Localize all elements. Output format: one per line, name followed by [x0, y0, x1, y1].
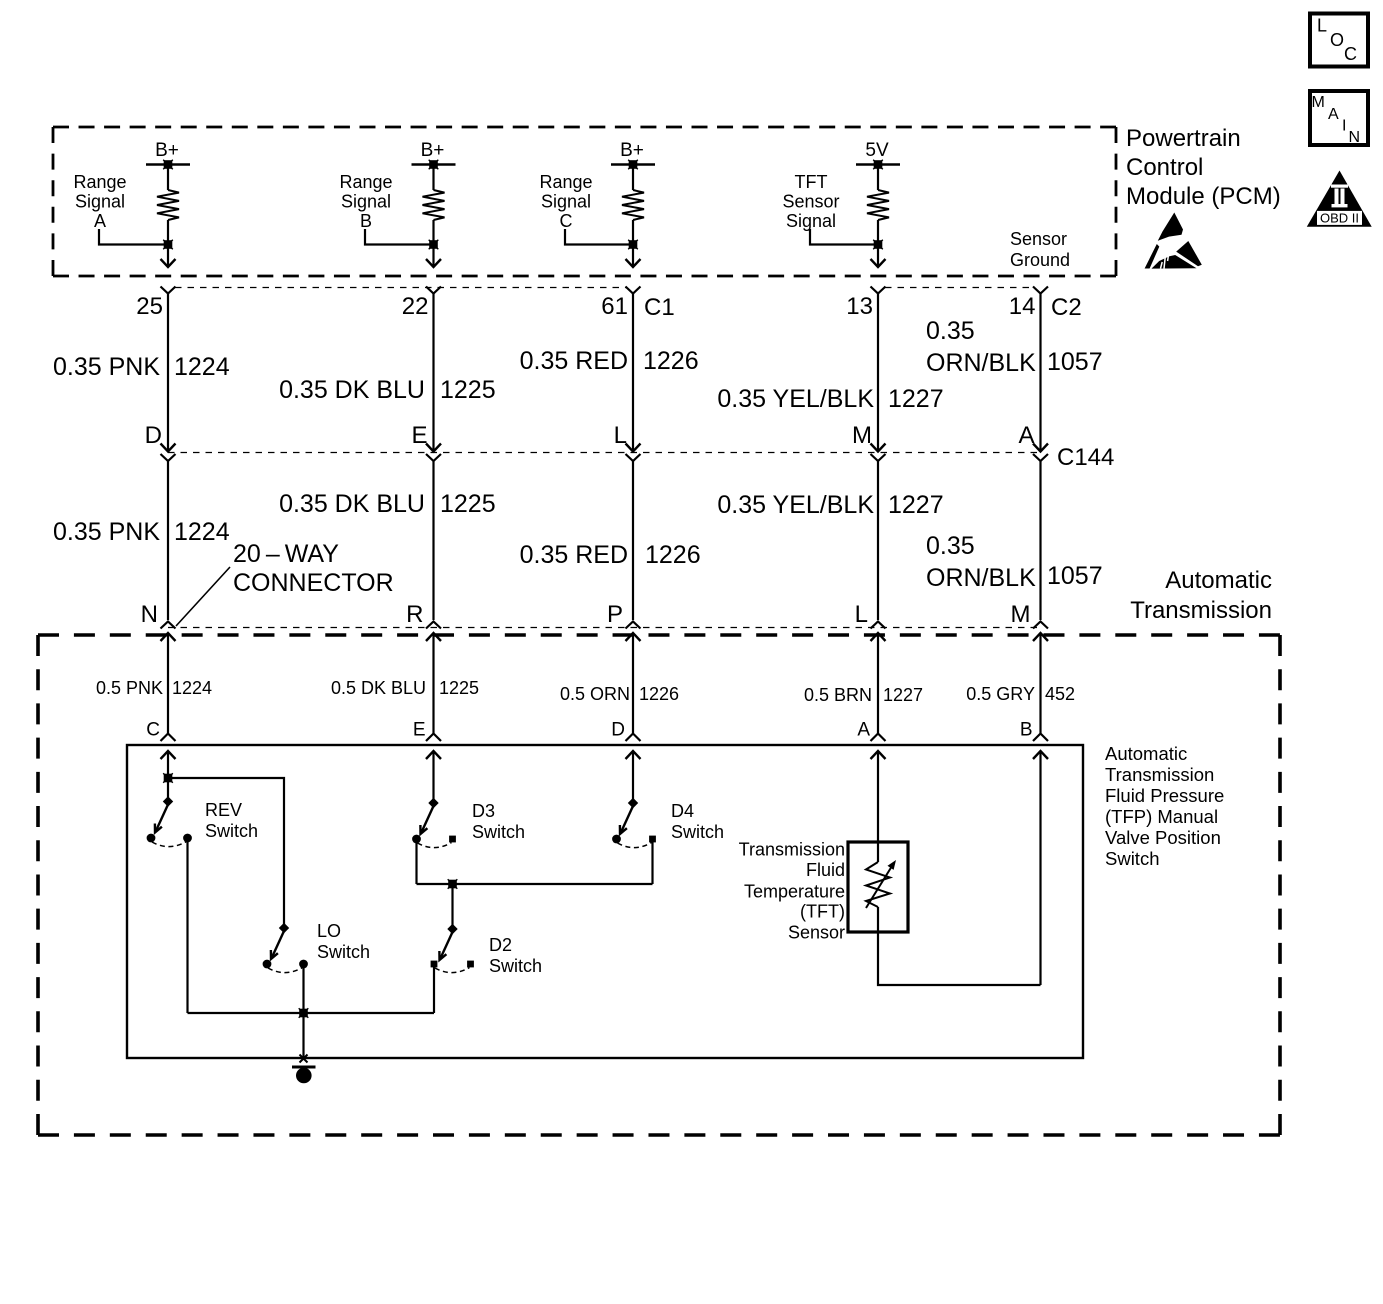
svg-text:452: 452 [1045, 684, 1075, 704]
D3 switch travel arc [418, 843, 452, 848]
splice junction D2 feed [448, 879, 458, 889]
20-way pin letter M [1011, 601, 1031, 628]
svg-text:C: C [1344, 44, 1357, 64]
splice junction signal node C [628, 240, 638, 250]
svg-text:Switch: Switch [671, 822, 724, 842]
wire label 0.5 PNK 1224 [96, 678, 212, 698]
svg-text:C: C [560, 211, 573, 231]
connector C1 dashed interface line [175, 287, 626, 289]
svg-text:ORN/BLK: ORN/BLK [926, 564, 1036, 592]
svg-text:E: E [411, 422, 427, 449]
pin number 61 [601, 293, 628, 320]
svg-text:Signal: Signal [341, 192, 391, 212]
TFP switch female terminal B [1033, 734, 1048, 742]
svg-text:O: O [1330, 30, 1344, 50]
D4 switch travel arc [618, 843, 652, 848]
svg-text:D: D [145, 422, 162, 449]
D4 switch blade [620, 806, 633, 834]
svg-text:0.35 YEL/BLK: 0.35 YEL/BLK [717, 385, 874, 413]
wire inside TFP switch (terminal E) [426, 751, 441, 805]
svg-text:B: B [1020, 720, 1033, 741]
svg-text:Module (PCM): Module (PCM) [1126, 183, 1281, 210]
svg-text:1225: 1225 [439, 678, 479, 698]
svg-text:1224: 1224 [172, 678, 212, 698]
svg-text:1225: 1225 [440, 490, 496, 518]
connector C1/C2 female terminal pin 25 [161, 287, 176, 294]
wire REV splice to LO switch [168, 778, 284, 925]
svg-text:Fluid Pressure: Fluid Pressure [1105, 785, 1224, 806]
node 5V supply rail (circuit 4) [856, 140, 900, 165]
wire ground bus [188, 1012, 435, 1014]
connector C144 female terminal E [426, 454, 441, 461]
svg-text:0.35 RED: 0.35 RED [520, 347, 628, 375]
20-way pin letter N [141, 601, 158, 628]
svg-text:B+: B+ [155, 140, 179, 161]
20-way connector female terminal N [161, 622, 176, 629]
crossing mark at TFP box edge [300, 1055, 308, 1063]
svg-text:0.5 BRN: 0.5 BRN [804, 685, 872, 705]
wire inside TFP switch (terminal B) [1033, 751, 1048, 985]
Automatic Transmission label [1130, 567, 1272, 624]
svg-text:0.5 ORN: 0.5 ORN [560, 684, 630, 704]
svg-text:0.5 PNK: 0.5 PNK [96, 678, 163, 698]
REV switch label [205, 800, 258, 841]
20-WAY CONNECTOR callout label [233, 540, 394, 597]
wire with arrow to PCM connector pin [626, 245, 641, 268]
C144 pin letter E [411, 422, 427, 449]
D3 switch label [472, 801, 525, 842]
svg-text:Transmission: Transmission [1130, 597, 1272, 624]
svg-text:D2: D2 [489, 935, 512, 955]
wire bus D3/D4 to D2 [417, 883, 653, 885]
REV switch travel arc [152, 842, 187, 847]
D3 switch blade [420, 806, 433, 834]
svg-text:1057: 1057 [1047, 348, 1103, 376]
svg-text:Automatic: Automatic [1165, 567, 1272, 594]
connector C144 female terminal A [1033, 454, 1048, 461]
svg-text:0.35 DK BLU: 0.35 DK BLU [279, 490, 425, 518]
svg-text:C1: C1 [644, 294, 675, 321]
wire LO output down to ground bus [302, 967, 304, 1013]
D2 switch travel arc [435, 968, 470, 973]
wire signal tap L-bend [565, 229, 633, 245]
connector name C2 [1051, 294, 1082, 321]
C144 pin letter D [145, 422, 162, 449]
svg-text:L: L [855, 601, 868, 628]
wire label 0.35 PNK 1224 (lower) [53, 518, 230, 546]
svg-text:Switch: Switch [1105, 848, 1160, 869]
svg-text:TFT: TFT [795, 172, 828, 192]
splice junction signal node B [429, 240, 439, 250]
svg-text:P: P [607, 601, 623, 628]
svg-text:C: C [146, 720, 160, 741]
signal label Range Signal C [539, 172, 592, 231]
20-way pin letter R [406, 601, 423, 628]
svg-text:0.5 DK BLU: 0.5 DK BLU [331, 678, 426, 698]
connector C144 dashed interface line [168, 452, 1040, 454]
20-way pin letter P [607, 601, 623, 628]
wire segment PCM to C144 (column 4) [871, 294, 886, 452]
svg-text:C2: C2 [1051, 294, 1082, 321]
node B+ supply rail (circuit 3) [611, 140, 655, 165]
wire label 0.35 RED 1226 (upper) [520, 347, 699, 375]
svg-text:Range: Range [73, 172, 126, 192]
D2 switch pivot [447, 924, 457, 934]
TFP switch name label [1105, 743, 1224, 869]
thermistor TFT element [866, 842, 896, 932]
svg-text:Sensor: Sensor [1010, 229, 1067, 249]
D2 switch label [489, 935, 542, 976]
connector C1/C2 female terminal pin 61 [626, 287, 641, 294]
wire label 0.35 RED 1226 (lower) [520, 541, 701, 569]
wire segment PCM to C144 (column 3) [626, 294, 641, 452]
svg-text:0.35 PNK: 0.35 PNK [53, 518, 160, 546]
svg-text:1057: 1057 [1047, 562, 1103, 590]
svg-text:Signal: Signal [786, 211, 836, 231]
wire inside TFP switch (terminal C) [161, 751, 176, 801]
REV switch contacts [147, 834, 192, 843]
wire TFT sensor return loop [878, 932, 1041, 985]
wire label 0.5 DK BLU 1225 [331, 678, 479, 698]
connector C144 female terminal D [161, 454, 176, 461]
pin number 22 [402, 293, 429, 320]
wire segment PCM to C144 (column 1) [161, 294, 176, 452]
svg-text:A: A [1328, 106, 1339, 123]
svg-text:Ground: Ground [1010, 250, 1070, 270]
svg-text:N: N [1349, 129, 1361, 146]
wire resistor to signal node [877, 220, 879, 245]
splice junction REV feed [163, 773, 173, 783]
D4 switch pivot [628, 798, 638, 808]
svg-text:Signal: Signal [75, 192, 125, 212]
svg-text:I: I [1342, 118, 1346, 135]
svg-text:A: A [857, 720, 870, 741]
svg-text:D3: D3 [472, 801, 495, 821]
svg-text:Temperature: Temperature [744, 882, 845, 902]
wire segment C144 to 20-way connector (column 4) [877, 461, 879, 620]
svg-text:R: R [406, 601, 423, 628]
C144 pin letter A [1018, 422, 1034, 449]
TFP switch female terminal D [626, 734, 641, 742]
svg-text:1224: 1224 [174, 518, 230, 546]
wire with arrow to PCM connector pin [871, 245, 886, 268]
wire label 0.35 DK BLU 1225 (upper) [279, 376, 496, 404]
svg-text:20 – WAY: 20 – WAY [233, 540, 339, 568]
wire segment C144 to 20-way connector (column 5) [1039, 461, 1041, 620]
svg-text:1225: 1225 [440, 376, 496, 404]
svg-text:Range: Range [339, 172, 392, 192]
svg-text:5V: 5V [865, 140, 889, 161]
splice junction at B+ rail [628, 160, 638, 170]
svg-text:LO: LO [317, 921, 341, 941]
20-way connector female terminal L [871, 622, 886, 629]
Sensor Ground label [1010, 229, 1070, 270]
20-way connector callout leader line [176, 567, 230, 626]
wire D3 output down [415, 842, 417, 884]
wire entering Automatic Transmission (column 4) [871, 633, 886, 733]
LO switch pivot [279, 923, 289, 933]
connector C2 dashed interface line [885, 287, 1033, 289]
ESD sensitive device symbol [1145, 213, 1202, 269]
wire entering Automatic Transmission (column 1) [161, 633, 176, 733]
svg-text:Transmission: Transmission [1105, 764, 1214, 785]
svg-text:0.35 PNK: 0.35 PNK [53, 353, 160, 381]
wire with arrow to PCM connector pin [161, 245, 176, 268]
REV switch pivot [163, 796, 173, 806]
svg-text:0.35 YEL/BLK: 0.35 YEL/BLK [717, 491, 874, 519]
Powertrain Control Module (PCM) dashed enclosure [53, 126, 1116, 129]
svg-text:Switch: Switch [205, 821, 258, 841]
svg-text:0.35 DK BLU: 0.35 DK BLU [279, 376, 425, 404]
svg-text:Fluid: Fluid [806, 860, 845, 880]
svg-text:A: A [94, 211, 106, 231]
wire entering Automatic Transmission (column 3) [626, 633, 641, 733]
svg-text:0.35: 0.35 [926, 317, 975, 345]
wire signal tap L-bend [99, 229, 168, 245]
splice junction at B+ rail [429, 160, 439, 170]
wire D2 output down [433, 967, 435, 1013]
svg-text:1226: 1226 [643, 347, 699, 375]
splice junction at B+ rail [163, 160, 173, 170]
20-way connector female terminal P [626, 622, 641, 629]
svg-text:Valve Position: Valve Position [1105, 827, 1221, 848]
TFP switch female terminal A [871, 734, 886, 742]
svg-text:(TFP) Manual: (TFP) Manual [1105, 806, 1218, 827]
LO switch label [317, 921, 370, 962]
svg-text:13: 13 [846, 293, 873, 320]
connector name C144 [1057, 444, 1114, 471]
D4 switch contacts [612, 835, 656, 844]
svg-text:Transmission: Transmission [739, 840, 845, 860]
svg-text:0.35 RED: 0.35 RED [520, 541, 628, 569]
wire label 0.5 BRN 1227 [804, 685, 923, 705]
C144 pin letter M [852, 422, 872, 449]
svg-text:REV: REV [205, 800, 242, 820]
svg-text:61: 61 [601, 293, 628, 320]
signal label Range Signal B [339, 172, 392, 231]
svg-text:1226: 1226 [639, 684, 679, 704]
svg-text:L: L [614, 422, 627, 449]
D2 switch contacts [431, 961, 474, 968]
wire inside TFP switch (terminal A) [871, 751, 886, 842]
20-way connector female terminal M [1033, 622, 1048, 629]
svg-text:L: L [1317, 16, 1327, 36]
connector C144 female terminal L [626, 454, 641, 461]
connector C1/C2 female terminal pin 22 [426, 287, 441, 294]
wire D4 output down [651, 842, 653, 884]
PCM name label [1126, 125, 1281, 210]
LO switch travel arc [268, 968, 303, 973]
ground symbol [292, 1067, 316, 1083]
splice junction ground bus [299, 1008, 309, 1018]
svg-text:OBD II: OBD II [1320, 211, 1359, 226]
splice junction at 5V rail [873, 160, 883, 170]
svg-text:1224: 1224 [174, 353, 230, 381]
svg-text:25: 25 [136, 293, 163, 320]
wire label 0.35 YEL/BLK 1227 (upper) [717, 385, 943, 413]
wire resistor to signal node [432, 220, 434, 245]
wire signal tap L-bend [365, 229, 434, 245]
splice junction signal node A [163, 240, 173, 250]
wire label 0.35 ORN/BLK 1057 (upper) [926, 317, 1103, 377]
svg-text:D: D [611, 720, 625, 741]
wire entering Automatic Transmission (column 5) [1033, 633, 1048, 733]
svg-text:0.35: 0.35 [926, 532, 975, 560]
svg-text:N: N [141, 601, 158, 628]
connector C1/C2 female terminal pin 13 [871, 287, 886, 294]
pin number 14 [1009, 293, 1036, 320]
wire REV output down [186, 841, 188, 1013]
wire resistor to signal node [167, 220, 169, 245]
svg-text:1226: 1226 [645, 541, 701, 569]
wire label 0.35 DK BLU 1225 (lower) [279, 490, 496, 518]
connector C1/C2 female terminal pin 14 [1033, 287, 1048, 294]
wire inside TFP switch (terminal D) [626, 751, 641, 805]
svg-text:14: 14 [1009, 293, 1036, 320]
wire ground drop [302, 1013, 304, 1059]
OBD II symbol triangle [1307, 171, 1372, 227]
TFP pin letter B [1020, 720, 1033, 741]
svg-text:B+: B+ [620, 140, 644, 161]
wire label 0.5 ORN 1226 [560, 684, 679, 704]
20-way connector dashed interface line [168, 627, 1040, 629]
TFP switch female terminal E [426, 734, 441, 742]
wire segment PCM to C144 (column 2) [426, 294, 441, 452]
wire label 0.35 ORN/BLK 1057 (lower) [926, 532, 1103, 592]
LO switch contacts [263, 960, 308, 969]
wire signal tap L-bend [810, 229, 878, 245]
resistor pull-up (circuit 4) [867, 165, 889, 221]
svg-text:0.5 GRY: 0.5 GRY [966, 684, 1035, 704]
svg-text:ORN/BLK: ORN/BLK [926, 349, 1036, 377]
resistor pull-up (circuit 2) [423, 165, 445, 221]
svg-text:1227: 1227 [888, 385, 944, 413]
pin number 25 [136, 293, 163, 320]
TFT sensor label [739, 840, 845, 943]
svg-text:A: A [1018, 422, 1034, 449]
svg-text:B+: B+ [421, 140, 445, 161]
MAIN reference symbol box [1310, 91, 1368, 146]
svg-text:1227: 1227 [888, 491, 944, 519]
resistor pull-up (circuit 3) [622, 165, 644, 221]
D3 switch contacts [412, 835, 456, 844]
wire segment C144 to 20-way connector (column 3) [632, 461, 634, 620]
REV switch blade [155, 805, 168, 833]
connector name C1 [644, 294, 675, 321]
svg-text:Switch: Switch [489, 956, 542, 976]
svg-text:CONNECTOR: CONNECTOR [233, 569, 394, 597]
svg-text:M: M [1312, 94, 1325, 111]
TFP switch female terminal C [161, 734, 176, 742]
D3 switch pivot [428, 798, 438, 808]
wire resistor to signal node [632, 220, 634, 245]
svg-text:D4: D4 [671, 801, 694, 821]
D2 switch blade [439, 932, 452, 960]
svg-text:Powertrain: Powertrain [1126, 125, 1241, 152]
wire segment C144 to 20-way connector (column 2) [432, 461, 434, 620]
wire entering Automatic Transmission (column 2) [426, 633, 441, 733]
node B+ supply rail (circuit 1) [146, 140, 190, 165]
svg-text:Range: Range [539, 172, 592, 192]
wire splice down to D2 switch [451, 884, 453, 926]
connector C144 female terminal M [871, 454, 886, 461]
20-way connector female terminal R [426, 622, 441, 629]
svg-text:B: B [360, 211, 372, 231]
wire label 0.5 GRY 452 [966, 684, 1075, 704]
wire segment PCM to C144 (column 5) [1033, 294, 1048, 452]
pin number 13 [846, 293, 873, 320]
svg-text:M: M [852, 422, 872, 449]
Automatic Transmission dashed enclosure [38, 633, 1280, 637]
resistor pull-up (circuit 1) [157, 165, 179, 221]
D4 switch label [671, 801, 724, 842]
splice junction signal node TFT [873, 240, 883, 250]
svg-text:Automatic: Automatic [1105, 743, 1187, 764]
svg-text:C144: C144 [1057, 444, 1114, 471]
C144 pin letter L [614, 422, 627, 449]
wire label 0.35 YEL/BLK 1227 (lower) [717, 491, 943, 519]
svg-text:Switch: Switch [472, 822, 525, 842]
svg-text:M: M [1011, 601, 1031, 628]
svg-text:Control: Control [1126, 154, 1203, 181]
svg-text:Signal: Signal [541, 192, 591, 212]
svg-text:22: 22 [402, 293, 429, 320]
wire segment C144 to 20-way connector (column 1) [167, 461, 169, 620]
TFP pin letter A [857, 720, 870, 741]
Transmission Fluid Temperature (TFT) sensor box [848, 842, 908, 932]
20-way pin letter L [855, 601, 868, 628]
svg-text:E: E [413, 720, 426, 741]
LOC reference symbol box [1310, 14, 1368, 67]
signal label Range Signal A [73, 172, 126, 231]
svg-text:1227: 1227 [883, 685, 923, 705]
TFP pin letter D [611, 720, 625, 741]
node B+ supply rail (circuit 2) [412, 140, 456, 165]
wire label 0.35 PNK 1224 (upper) [53, 353, 230, 381]
TFP pin letter E [413, 720, 426, 741]
wire with arrow to PCM connector pin [426, 245, 441, 268]
TFP pin letter C [146, 720, 160, 741]
svg-text:Sensor: Sensor [782, 192, 839, 212]
svg-text:(TFT): (TFT) [800, 902, 845, 922]
Automatic Transmission Fluid Pressure (TFP) Manual Valve Position Switch box [127, 745, 1083, 1058]
svg-text:Switch: Switch [317, 942, 370, 962]
svg-text:Sensor: Sensor [788, 923, 845, 943]
LO switch blade [271, 931, 284, 959]
signal label TFT Sensor Signal [782, 172, 839, 231]
